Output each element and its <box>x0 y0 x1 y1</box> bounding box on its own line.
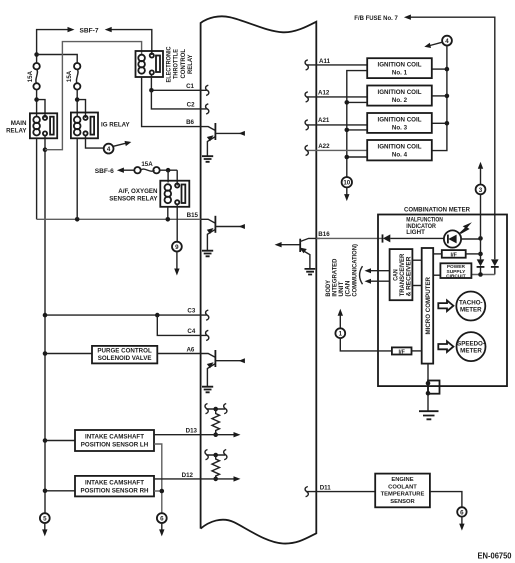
svg-text:B6: B6 <box>186 119 194 126</box>
wire: IG relay coil down <box>76 138 78 219</box>
svg-text:B15: B15 <box>187 212 199 219</box>
wire: main relay contact output down / branch to ETC relay feed <box>43 42 142 514</box>
svg-text:A12: A12 <box>318 89 330 96</box>
connector break at C1 <box>206 85 209 95</box>
reference circle 6 with down arrow (left) <box>157 513 167 536</box>
diode D3 (MIL series diode) <box>383 234 444 242</box>
box: POWER SUPPLY CIRCUIT <box>440 263 471 279</box>
transistor Q4 (B16, MIL driver) <box>275 238 320 269</box>
resistor R1 (D13 pull-up) with tails <box>205 404 227 436</box>
svg-text:IG RELAY: IG RELAY <box>101 122 131 129</box>
node: LED to power junction <box>478 236 483 241</box>
svg-text:10: 10 <box>343 180 350 187</box>
svg-text:4: 4 <box>107 146 111 153</box>
svg-text:CIRCUIT: CIRCUIT <box>446 273 466 279</box>
TACHO-METER circle <box>456 292 485 321</box>
box: IGNITION COIL No.4 <box>367 140 432 160</box>
svg-text:15A: 15A <box>27 70 34 82</box>
wire: B16 line to combination meter <box>316 237 382 239</box>
svg-text:No. 4: No. 4 <box>392 152 408 159</box>
wire: micro computer to power supply box <box>433 274 440 276</box>
wire: fuse F2 to IG relay coil and contact <box>75 90 86 118</box>
reference circle 1 with up arrow <box>335 309 345 338</box>
node: connector top <box>426 381 431 386</box>
svg-text:D13: D13 <box>186 428 198 435</box>
wire: purge valve to A6 <box>157 353 200 355</box>
wire: micro computer to I/F to junction <box>433 253 480 255</box>
wire: RH cam sensor feed <box>45 490 75 492</box>
label MALFUNCTION INDICATOR LIGHT <box>406 217 443 237</box>
reference circle 6 with down arrow (right) <box>457 507 466 530</box>
label A/F OXYGEN SENSOR RELAY <box>109 188 158 203</box>
reference circle 4 (ignition coils) with SW arrow <box>424 36 452 48</box>
svg-text:ENGINE: ENGINE <box>391 477 413 483</box>
ground (B6 transistor) <box>202 156 213 162</box>
box: MICRO COMPUTER (rotated text) <box>422 248 434 364</box>
wire: F/B fuse feed with arrow <box>404 15 495 260</box>
box: CAN TRANSCEIVER & RECEIVER (rotated text) <box>390 249 413 300</box>
svg-text:RELAY: RELAY <box>6 128 27 135</box>
wire: C3 line <box>43 313 207 318</box>
connector break at D11 <box>305 487 308 497</box>
svg-text:A11: A11 <box>319 58 331 65</box>
svg-text:C2: C2 <box>187 102 195 109</box>
transistor Q2 (B15 driver) <box>201 216 245 251</box>
transistor Q1 (B6 driver) <box>201 123 245 156</box>
wire: coil No.2 lower-left pin <box>347 101 367 103</box>
svg-text:COOLANT: COOLANT <box>388 484 417 490</box>
fuse SBF-6 15A with arrow <box>117 167 177 173</box>
svg-text:C3: C3 <box>187 308 195 315</box>
wire: RH sensor return to junction <box>154 490 162 492</box>
wire: A21 line <box>306 124 367 126</box>
connector break at C4 <box>206 330 209 340</box>
svg-text:No. 2: No. 2 <box>392 97 408 104</box>
wire: A22 line <box>306 149 367 151</box>
svg-text:METER: METER <box>460 347 482 354</box>
diode D2 (power supply, right) <box>491 259 499 274</box>
svg-text:METER: METER <box>460 307 482 314</box>
svg-text:A6: A6 <box>186 347 194 354</box>
block arrow to speedometer <box>438 341 453 352</box>
wire: circle 1 to I/F (lower) <box>340 338 392 351</box>
relay: ELECTRONIC THROTTLE CONTROL RELAY <box>136 51 164 77</box>
relay: A/F OXYGEN SENSOR RELAY <box>160 181 189 207</box>
wire: C4 branch <box>157 315 207 335</box>
svg-text:1: 1 <box>339 331 343 338</box>
svg-text:D12: D12 <box>182 472 194 479</box>
connector break at A12 <box>305 92 308 102</box>
svg-text:I/F: I/F <box>398 349 405 355</box>
svg-text:IGNITION COIL: IGNITION COIL <box>378 89 422 96</box>
transistor Q3 (A6 driver) <box>201 350 245 387</box>
wire: coolant sensor to circle 6 <box>430 492 462 508</box>
svg-text:4: 4 <box>445 38 449 45</box>
wire: into A/F relay coil and contact <box>168 170 177 185</box>
wire: RH sensor to D12 <box>154 478 201 480</box>
svg-text:MAIN: MAIN <box>11 120 27 127</box>
LED (malfunction indicator light) <box>444 222 481 247</box>
wire: LH sensor return down to RH junction <box>154 444 162 513</box>
svg-text:THROTTLE: THROTTLE <box>173 49 180 79</box>
node: rail junction No.4 <box>345 155 350 160</box>
svg-text:TACHO-: TACHO- <box>459 300 483 307</box>
node: I/F junction <box>478 252 483 257</box>
svg-text:LIGHT: LIGHT <box>406 229 425 236</box>
wire: ignition coil right rail <box>432 46 449 151</box>
connector break at A21 <box>305 120 308 130</box>
box: INTAKE CAMSHAFT POSITION SENSOR LH <box>75 430 154 451</box>
wire: A12 line <box>306 96 367 98</box>
svg-text:15A: 15A <box>141 161 153 168</box>
ground (combination meter) <box>419 411 439 419</box>
fuse F1 15A (main relay) <box>33 63 39 90</box>
wire: fuse F1 to main relay coil and contact <box>34 90 45 118</box>
connector break at C3 <box>206 310 209 320</box>
wire: power supply line <box>471 274 494 276</box>
connector break at A22 <box>305 145 308 155</box>
svg-text:I/F: I/F <box>450 252 457 258</box>
wire: purge valve feed <box>45 353 92 355</box>
svg-text:SBF-6: SBF-6 <box>95 168 114 175</box>
svg-text:F/B FUSE No. 7: F/B FUSE No. 7 <box>354 15 398 22</box>
wire: CAN box to micro computer (2 lines) <box>412 260 421 285</box>
node: connector bottom <box>426 391 431 396</box>
box: I/F (upper) <box>442 250 466 258</box>
svg-text:6: 6 <box>160 516 164 523</box>
box: PURGE CONTROL SOLENOID VALVE <box>92 346 157 364</box>
reference circle 9 with down arrow <box>172 242 182 276</box>
svg-text:ELECTRONIC: ELECTRONIC <box>166 46 173 82</box>
node: junction below SBF-7 <box>34 52 39 57</box>
ground (A6 transistor) <box>202 387 213 393</box>
svg-text:POSITION SENSOR LH: POSITION SENSOR LH <box>81 442 149 449</box>
svg-text:D11: D11 <box>320 484 332 491</box>
svg-text:EN-06750: EN-06750 <box>478 551 512 561</box>
wire: branch to fuse No.2 <box>37 55 78 64</box>
wire: D11 line to coolant sensor <box>306 491 375 493</box>
svg-text:No. 3: No. 3 <box>392 124 408 131</box>
wire: LH sensor to D13 <box>154 434 201 436</box>
wire: coil No.4 lower-left pin <box>347 156 367 158</box>
relay: MAIN RELAY <box>30 113 57 138</box>
ground (B16 transistor) <box>305 269 316 275</box>
SPEEDO-METER circle <box>457 332 486 361</box>
reference circle 10 with down arrow <box>342 177 352 201</box>
svg-text:TEMPERATURE: TEMPERATURE <box>381 492 425 498</box>
reference circle 3 with up arrow <box>476 162 486 239</box>
node: RH feed junction <box>43 489 48 494</box>
box: IGNITION COIL No.2 <box>367 86 432 106</box>
wire: SBF-7 feed line with arrows <box>37 27 152 63</box>
node: diode junction <box>478 272 483 277</box>
relay: IG RELAY <box>71 113 98 139</box>
svg-text:9: 9 <box>175 244 179 251</box>
label BODY INTEGRATED UNIT (CAN COMMUNICATION) (rotated) <box>325 244 359 297</box>
node: sensor returns junction <box>160 489 165 494</box>
node: rail junction No.2 <box>345 100 350 105</box>
svg-text:IGNITION COIL: IGNITION COIL <box>378 144 422 151</box>
svg-text:MICRO COMPUTER: MICRO COMPUTER <box>425 276 432 334</box>
wire: ETC relay contact to C1 / C2 <box>149 75 207 109</box>
svg-text:6: 6 <box>460 509 464 516</box>
block arrow to tachometer <box>438 300 453 311</box>
diode D1 (power supply, left) <box>477 259 485 274</box>
svg-text:B16: B16 <box>318 231 330 238</box>
wire: micro computer down to meter connector <box>427 364 429 412</box>
svg-text:C1: C1 <box>186 83 194 90</box>
wire: A11 line <box>306 64 367 66</box>
wire: LH cam sensor feed <box>45 440 75 442</box>
connector rect at meter bottom <box>428 381 440 394</box>
node: LH feed junction <box>43 438 48 443</box>
svg-text:C4: C4 <box>187 328 195 335</box>
wire: D13 arrow into ECM <box>201 432 241 437</box>
wire: coil No.3 lower-left pin <box>347 129 367 131</box>
wire: A/F relay coil to B15 line <box>167 207 169 220</box>
svg-text:IGNITION COIL: IGNITION COIL <box>378 62 422 69</box>
svg-text:A21: A21 <box>318 117 330 124</box>
wire: power vertical to I/F and diode <box>480 238 482 259</box>
connector break at A11 <box>305 60 308 70</box>
svg-text:SPEEDO-: SPEEDO- <box>457 340 485 347</box>
wire: coil No.1 lower-left pin to common rail <box>347 71 367 178</box>
box: ENGINE COOLANT TEMPERATURE SENSOR <box>375 474 430 508</box>
svg-text:COMBINATION METER: COMBINATION METER <box>404 207 470 214</box>
node: purge feed junction <box>43 351 48 356</box>
wire: I/F lower to micro computer <box>412 350 422 352</box>
box: IGNITION COIL No.3 <box>367 113 432 133</box>
svg-text:PURGE CONTROL: PURGE CONTROL <box>97 348 152 355</box>
svg-text:COMMUNICATION): COMMUNICATION) <box>352 244 359 297</box>
svg-text:RELAY: RELAY <box>187 54 194 74</box>
reference circle 5 with down arrow <box>40 513 50 536</box>
svg-text:SENSOR RELAY: SENSOR RELAY <box>109 195 158 202</box>
wire: main relay coil down to B15 line <box>36 138 38 219</box>
node: D12 junction <box>213 477 218 482</box>
label MAIN RELAY <box>6 120 27 135</box>
svg-text:INTAKE CAMSHAFT: INTAKE CAMSHAFT <box>85 434 144 441</box>
svg-text:A/F, OXYGEN: A/F, OXYGEN <box>118 188 158 195</box>
svg-text:SBF-7: SBF-7 <box>79 27 98 34</box>
svg-text:IGNITION COIL: IGNITION COIL <box>378 116 422 123</box>
label ELECTRONIC THROTTLE CONTROL RELAY (rotated) <box>166 46 194 82</box>
node: A/F relay feed junction <box>166 168 171 173</box>
connector break at C2 <box>206 104 209 114</box>
box: INTAKE CAMSHAFT POSITION SENSOR RH <box>75 476 154 497</box>
wire: D12 arrow into ECM <box>201 476 241 481</box>
svg-text:15A: 15A <box>66 70 73 82</box>
svg-text:5: 5 <box>43 516 47 523</box>
svg-text:POSITION SENSOR RH: POSITION SENSOR RH <box>80 487 149 494</box>
ECM torn-edge box <box>201 16 317 543</box>
svg-text:A22: A22 <box>318 143 330 150</box>
node: A/F coil junction on B15 <box>166 217 171 222</box>
node: IG relay coil to B15 <box>75 217 80 222</box>
ground (B15 transistor) <box>202 251 213 257</box>
resistor R2 (D12 pull-up) with tails <box>205 450 227 480</box>
wire: A/F relay contact down to circle 9 <box>176 204 178 241</box>
fuse F2 15A (IG relay) <box>74 63 80 90</box>
box: combination meter <box>378 215 507 387</box>
svg-text:SOLENOID VALVE: SOLENOID VALVE <box>98 355 152 362</box>
wire: IG relay contact to circle 4 <box>86 136 104 149</box>
svg-text:& RECEIVER: & RECEIVER <box>405 256 412 296</box>
box: IGNITION COIL No.1 <box>367 58 432 78</box>
wire: ETC relay coil to B6 <box>142 77 201 127</box>
CAN communication arrows (to body integrated unit) <box>360 266 390 284</box>
svg-text:No. 1: No. 1 <box>392 70 408 77</box>
node: D13 junction <box>213 432 218 437</box>
svg-text:INTAKE CAMSHAFT: INTAKE CAMSHAFT <box>85 479 144 486</box>
box: I/F (lower) <box>392 347 412 355</box>
svg-text:3: 3 <box>479 187 483 194</box>
reference circle 4 (IG relay) with NE arrow <box>104 141 132 154</box>
node: rail junction No.3 <box>345 128 350 133</box>
svg-text:SENSOR: SENSOR <box>390 499 415 505</box>
